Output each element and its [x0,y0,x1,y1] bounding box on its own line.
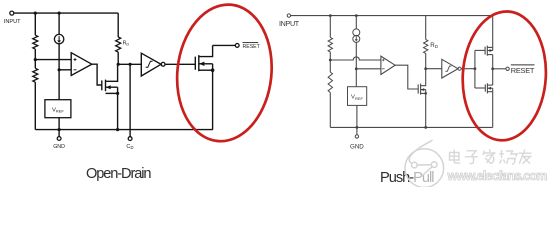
wire top rail (right) [291,15,493,17]
svg-text:GND: GND [53,144,65,150]
inverter U4 with hysteresis (right) [442,59,458,78]
svg-text:RESET: RESET [243,44,261,50]
node comparator - input junction dot [58,68,61,71]
node gate branch dot [474,67,477,70]
voltage reference VREF box (left) [45,100,71,118]
wire comparator output to M1 gate [92,64,102,85]
node drain line with dots [118,63,141,65]
node dot rail/current source (right) [355,14,358,17]
node divider tap dot [34,58,37,61]
input terminal INPUT (right) [287,14,290,17]
current source I2 (right, double circle) [355,16,357,29]
input terminal INPUT (left) [10,11,14,15]
node dot rail/divider (right) [329,14,332,17]
resistor R1 (upper divider, left) [33,35,38,49]
current source I1 (left) [58,13,60,34]
svg-text:Open-Drain: Open-Drain [86,166,152,182]
wire top rail (left) [14,12,118,14]
wire bottom rail (left) [35,129,213,131]
resistor R1 (right) [328,37,332,52]
node GND junction dot (right) [356,126,359,129]
wire divider upper segment [34,13,36,35]
wire inverter output to M2 gate [165,63,195,65]
resistor RD (right) [425,16,427,40]
wire R2 down to bottom rail [34,82,36,129]
wire divider upper (right) [329,16,331,38]
wire inverter out to gate branch [461,68,475,70]
transistor M2 (open-drain NMOS, left) [194,57,196,70]
node drain dot (right) [424,67,427,70]
output terminal RESET (right) [506,67,509,70]
svg-text:VREF: VREF [52,108,64,114]
capacitor terminal CD [128,137,132,141]
voltage reference VREF box (right) [348,87,367,106]
wire down to VREF [58,70,60,100]
node junction dot top rail / current source [58,12,61,15]
svg-text:CD: CD [126,144,133,150]
wire bottom rail (right) [330,126,492,128]
resistor RD (pull-up, left) [117,13,119,37]
svg-text:www.elecfans.com: www.elecfans.com [447,169,548,183]
transistor M5 (NMOS bottom, right) [484,84,486,91]
wire top rail down to M4 source [492,16,494,48]
op-amp comparator U3 (right) [381,56,395,74]
wire R1 to tap [34,49,36,68]
node GND junction dot [58,128,61,131]
ground terminal GND (left) [58,130,60,137]
inverter U2 with hysteresis (left) [141,53,161,76]
svg-text:RESET: RESET [511,66,535,75]
red highlight ellipse (right output stage) [459,9,550,143]
node divider tap dot (right) [329,59,332,62]
wire M2 source down to rail [212,70,214,129]
svg-text:INPUT: INPUT [4,19,21,25]
wire comparator out to M3 gate [395,65,418,89]
wire VREF to bottom rail [58,118,60,130]
wire M2 drain to RESET [213,44,236,46]
svg-text:VREF: VREF [351,95,363,101]
transistor M3 (NMOS, right) [417,84,419,93]
svg-text:GND: GND [350,144,364,151]
wire M1 source to bottom rail [117,93,119,129]
resistor R2 (lower divider, left) [33,68,38,82]
node junction dot top rail / divider [34,12,37,15]
wire node to inverter (right) [426,68,442,70]
wire M5 source to bottom rail [492,92,494,128]
wire CD line down [129,64,131,136]
output terminal RESET (left) [235,44,239,48]
transistor M4 (PMOS top, right) [484,47,486,55]
op-amp comparator U1 (left) [71,53,92,76]
watermark elecfans logo [405,140,444,187]
wire output node between M4/M5 [492,55,494,86]
svg-text:INPUT: INPUT [279,19,300,28]
wire M3 source to rail [425,93,427,127]
watermark chinese characters (vector approximation) [450,149,532,164]
wire gate branch vertical [474,50,476,88]
resistor R2 (right) [328,72,332,92]
wire tap to comparator + input with hop over [330,57,381,60]
ground terminal GND (right) [356,127,358,134]
red highlight ellipse (left output stage) [170,0,278,146]
transistor M1 (NMOS, left) [101,80,103,90]
wire current source to comparator - input [355,42,357,86]
wire current source to comparator - input [58,44,60,70]
wire divider tap to comparator + input [35,59,71,61]
